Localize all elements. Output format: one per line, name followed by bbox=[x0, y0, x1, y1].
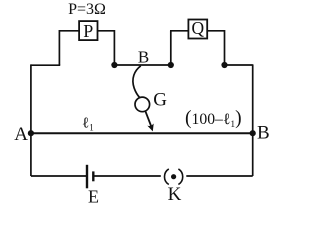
wire P left to staircase bbox=[59, 30, 79, 32]
bridge wire A to B bbox=[31, 132, 253, 134]
galvanometer G bbox=[135, 97, 150, 112]
svg-text:P: P bbox=[83, 21, 93, 41]
wire left vertical upper bbox=[58, 30, 60, 65]
svg-text:B: B bbox=[257, 123, 270, 144]
key K contact dot bbox=[171, 174, 176, 179]
bottom wire middle bbox=[93, 175, 161, 177]
wire down from Q right bbox=[224, 30, 226, 65]
junction dot right branch bbox=[221, 62, 227, 68]
wire down to node B left bbox=[113, 30, 115, 65]
wire left horizontal at y65 bbox=[31, 64, 60, 66]
bottom wire right bbox=[186, 175, 252, 177]
battery E short plate bbox=[92, 171, 94, 181]
resistor P bbox=[79, 21, 97, 41]
svg-text:P=3Ω: P=3Ω bbox=[68, 1, 106, 18]
wire node B horizontal bbox=[114, 64, 170, 66]
battery E long plate bbox=[86, 165, 88, 189]
svg-text:K: K bbox=[168, 184, 182, 205]
wire curve to galvanometer bbox=[133, 66, 141, 98]
svg-text:G: G bbox=[153, 90, 167, 111]
resistor Q bbox=[188, 18, 207, 39]
svg-text:A: A bbox=[14, 124, 28, 145]
svg-text:Q: Q bbox=[191, 18, 204, 38]
wire Q left horizontal bbox=[170, 30, 188, 32]
wire Q right horizontal bbox=[207, 30, 224, 32]
wire right vertical to bottom bbox=[252, 64, 254, 176]
key K right arc bbox=[178, 169, 182, 185]
wire left vertical to bottom bbox=[30, 64, 32, 176]
wire P right bbox=[98, 30, 115, 32]
bottom wire left bbox=[31, 175, 87, 177]
svg-text:B: B bbox=[138, 48, 149, 67]
key K left arc bbox=[164, 169, 168, 185]
jockey arrow bbox=[145, 111, 154, 132]
svg-text:E: E bbox=[88, 186, 99, 206]
node A dot bbox=[28, 130, 34, 136]
junction dot node B left bbox=[111, 62, 117, 68]
wire up to Q left bbox=[170, 31, 172, 65]
node B dot (right) bbox=[250, 130, 256, 136]
wire right horizontal at y65 bbox=[225, 64, 253, 66]
junction dot node B right bbox=[168, 62, 174, 68]
